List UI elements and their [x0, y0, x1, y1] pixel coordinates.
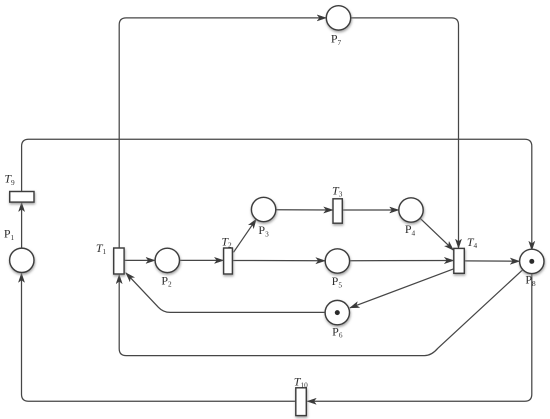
wire P5 to T4	[350, 260, 454, 262]
place P7	[326, 6, 350, 30]
wire T10 to P1 (across bottom, up)	[22, 273, 296, 401]
wire P1 to T9	[21, 203, 23, 249]
svg-text:P3: P3	[258, 223, 269, 238]
place P8	[520, 249, 544, 273]
wire T4 to P8	[464, 260, 519, 262]
wire T1 to P7 (up, across top)	[119, 18, 326, 248]
wire T2 to P3 (diagonal)	[234, 219, 257, 252]
svg-text:P8: P8	[525, 273, 536, 288]
wire T9 to P8 (up, across top-middle, down)	[22, 139, 532, 250]
place P4	[399, 198, 423, 222]
wire P7 to T4 (across top, down)	[351, 18, 459, 248]
svg-text:P7: P7	[331, 32, 342, 47]
svg-text:T2: T2	[221, 234, 232, 249]
svg-text:P1: P1	[4, 227, 15, 242]
transition T4	[454, 248, 465, 273]
token in P8	[529, 259, 534, 264]
wire P3 to T3	[276, 209, 333, 211]
svg-text:T4: T4	[467, 235, 478, 250]
transition T9	[10, 192, 34, 203]
transition T2	[224, 248, 233, 274]
wire T4 to P6 (diagonal)	[350, 269, 454, 308]
svg-text:T1: T1	[96, 241, 107, 256]
wire P2 to T2	[180, 259, 224, 261]
wire T2 to P5	[232, 260, 325, 262]
svg-text:P5: P5	[332, 274, 343, 289]
place P6	[325, 300, 349, 324]
wire P4 to T4 (diagonal)	[420, 218, 453, 250]
token in P6	[335, 310, 340, 315]
place P1	[10, 248, 34, 272]
wire T3 to P4	[342, 209, 398, 211]
place P3	[251, 197, 275, 221]
wire P8 to T1 (diagonal, across bottom-middle, up)	[119, 270, 523, 356]
svg-text:P4: P4	[405, 222, 416, 237]
svg-text:T10: T10	[294, 374, 308, 389]
transition T10	[296, 388, 307, 416]
transition T1	[114, 248, 124, 274]
svg-text:T3: T3	[332, 183, 343, 198]
place P2	[155, 248, 179, 272]
wire P8 to T10 (down, across bottom)	[307, 274, 532, 402]
svg-text:T9: T9	[4, 172, 15, 187]
svg-text:P6: P6	[332, 324, 343, 339]
svg-text:P2: P2	[161, 273, 172, 288]
wire P6 to T1 (left then diagonal up)	[126, 273, 325, 313]
wire T1 to P2	[124, 259, 155, 261]
place P5	[325, 249, 349, 273]
transition T3	[333, 199, 342, 223]
